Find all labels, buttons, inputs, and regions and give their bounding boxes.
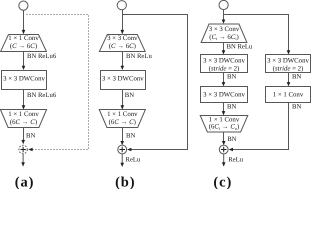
depthwise conv stride2 (c right): 3x3 DWConv (stride=2) xyxy=(266,55,311,73)
svg-text:3 × 3 DWConv: 3 × 3 DWConv xyxy=(203,91,245,98)
input node (c) xyxy=(219,0,228,9)
expansion conv (a): 1x1 Conv (C -> 6C) xyxy=(1,35,47,52)
wire (c right): down and into add xyxy=(233,103,289,150)
svg-text:BN: BN xyxy=(125,92,134,99)
svg-text:1 × 1 Conv: 1 × 1 Conv xyxy=(107,111,138,118)
add node (a): dashed circle plus xyxy=(19,145,27,153)
wire (a): projection -> add xyxy=(23,128,25,141)
svg-text:(a): (a) xyxy=(15,174,35,189)
svg-text:(6C → C): (6C → C) xyxy=(109,119,136,126)
svg-text:BN: BN xyxy=(292,103,301,110)
projection conv (a): 1x1 Conv (6C -> C) xyxy=(0,110,46,128)
depthwise conv (c left): 3x3 DWConv xyxy=(201,87,248,103)
pointwise conv (c right): 1x1 Conv xyxy=(266,87,311,103)
svg-text:1 × 1 Conv: 1 × 1 Conv xyxy=(273,91,304,98)
svg-text:BN: BN xyxy=(292,73,301,80)
wire (b): projection -> add xyxy=(122,128,124,142)
wire (c left): dwconv1 -> dwconv2 xyxy=(223,73,225,83)
svg-text:3 × 3 Conv: 3 × 3 Conv xyxy=(209,26,240,33)
wire (a): dwconv -> projection xyxy=(23,90,25,107)
skip connection (b): solid path xyxy=(123,15,188,150)
wire (b): output arrow xyxy=(121,154,123,164)
svg-text:3 × 3 DWConv: 3 × 3 DWConv xyxy=(102,75,144,82)
wire (c left): dwconv2 -> projection xyxy=(223,103,225,112)
svg-text:BN: BN xyxy=(26,133,35,140)
wire (a): output arrow xyxy=(22,154,24,163)
input node (b) xyxy=(117,1,126,10)
svg-text:(6C → C): (6C → C) xyxy=(10,119,37,126)
wire (b): dwconv -> projection xyxy=(122,90,124,107)
svg-text:BN ReLu6: BN ReLu6 xyxy=(27,92,57,99)
wire (b): expansion -> dwconv xyxy=(122,52,124,67)
svg-text:1 × 1 Conv: 1 × 1 Conv xyxy=(8,35,39,42)
add node (c): circle plus xyxy=(219,145,228,154)
svg-text:(C → 6C): (C → 6C) xyxy=(10,43,37,50)
svg-text:1 × 1 Conv: 1 × 1 Conv xyxy=(8,111,39,118)
svg-text:ReLu: ReLu xyxy=(126,156,142,163)
svg-text:(Ci → 6Ci): (Ci → 6Ci) xyxy=(209,34,239,41)
svg-text:3 × 3 DWConv: 3 × 3 DWConv xyxy=(203,57,245,64)
svg-text:BN ReLu: BN ReLu xyxy=(126,53,152,60)
svg-text:(c): (c) xyxy=(213,174,232,189)
input node (a) xyxy=(19,1,28,10)
svg-text:BN: BN xyxy=(126,133,135,140)
svg-text:3 × 3 Conv: 3 × 3 Conv xyxy=(107,35,138,42)
wire: input stem (a) xyxy=(23,10,25,31)
wire (c): expansion -> dwconv stride2 xyxy=(223,43,225,52)
svg-text:ReLu: ReLu xyxy=(228,156,244,163)
svg-text:(C → 6C): (C → 6C) xyxy=(109,43,136,50)
wire (c): output arrow xyxy=(223,154,225,163)
svg-text:(b): (b) xyxy=(115,174,135,189)
projection conv (c): 1x1 Conv (6Ci -> Co) xyxy=(200,116,248,133)
svg-text:(stride = 2): (stride = 2) xyxy=(209,66,240,73)
projection conv (b): 1x1 Conv (6C -> C) xyxy=(99,110,145,128)
branch wire (c): to right column xyxy=(224,15,289,52)
svg-text:BN: BN xyxy=(227,103,236,110)
wire (c): projection -> add xyxy=(223,132,225,142)
svg-text:(6Ci → Co): (6Ci → Co) xyxy=(209,124,240,131)
wire: input stem (b) xyxy=(122,10,124,31)
svg-text:BN: BN xyxy=(227,73,236,80)
depthwise conv stride2 (c left): 3x3 DWConv (stride=2) xyxy=(201,55,248,73)
add node (b): circle plus xyxy=(118,145,127,154)
expansion conv (c): 3x3 Conv (Ci -> 6Ci) xyxy=(201,24,247,43)
wire: input stem (c) xyxy=(223,9,225,20)
depthwise conv (b): 3x3 DWConv xyxy=(101,71,146,90)
skip connection (a): dotted path xyxy=(27,15,89,150)
svg-text:3 × 3 DWConv: 3 × 3 DWConv xyxy=(267,57,309,64)
wire (a): expansion -> dwconv xyxy=(23,52,25,67)
svg-text:1 × 1 Conv: 1 × 1 Conv xyxy=(209,116,240,123)
svg-text:(stride = 2): (stride = 2) xyxy=(273,66,304,73)
svg-text:BN: BN xyxy=(227,136,236,143)
depthwise conv (a): 3x3 DWConv xyxy=(2,71,47,90)
wire (c right): dwconv -> 1x1 conv xyxy=(288,73,290,83)
svg-text:BN ReLu6: BN ReLu6 xyxy=(27,53,57,60)
svg-text:3 × 3 DWConv: 3 × 3 DWConv xyxy=(3,75,45,82)
expansion conv (b): 3x3 Conv (C -> 6C) xyxy=(99,35,145,52)
svg-text:BN ReLu: BN ReLu xyxy=(227,44,253,51)
